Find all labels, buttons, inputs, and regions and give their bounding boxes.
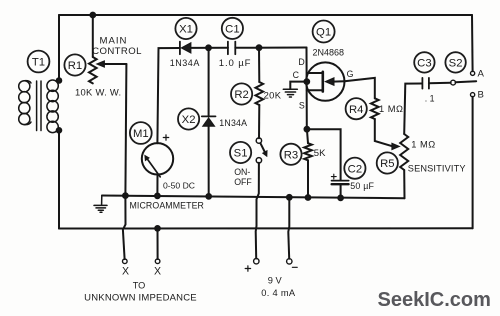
microammeter M1 body <box>142 143 173 174</box>
svg-text:SeekIC.com: SeekIC.com <box>378 289 491 311</box>
svg-text:R2: R2 <box>234 89 248 101</box>
wire left vertical lower <box>58 130 60 228</box>
wire top border <box>59 14 472 16</box>
junction R1 top <box>90 13 95 18</box>
terminal battery minus circle <box>287 259 292 264</box>
terminal A circle <box>471 71 475 75</box>
svg-text:9 V: 9 V <box>268 275 283 285</box>
svg-text:UNKNOWN IMPEDANCE: UNKNOWN IMPEDANCE <box>84 292 197 303</box>
wire source node to C2 <box>307 129 341 180</box>
junction R3 at ground rail <box>306 195 311 200</box>
junction X2 at ground rail <box>206 194 211 199</box>
wire drain corner / D-S vertical <box>306 48 308 130</box>
wire R2 top lead <box>258 48 260 82</box>
terminal B circle <box>471 93 475 97</box>
wire gate lead <box>333 80 345 82</box>
wire meter branch top corner <box>157 48 180 143</box>
svg-text:MICROAMMETER: MICROAMMETER <box>130 201 205 211</box>
resistor R2 20K <box>256 82 264 105</box>
svg-text:1.0 µF: 1.0 µF <box>219 58 252 69</box>
ground symbol case <box>283 89 297 97</box>
svg-text:1N34A: 1N34A <box>170 58 200 68</box>
junction C2 at ground rail <box>338 196 343 201</box>
transistor Q1 channel bar <box>321 72 324 92</box>
designator circle C1 <box>222 18 243 39</box>
junction secondary bottom <box>57 128 62 133</box>
switch S1 upper contact <box>256 138 261 143</box>
svg-text:1 MΩ: 1 MΩ <box>379 104 403 114</box>
svg-text:2N4868: 2N4868 <box>313 48 345 58</box>
resistor R5 1M sensitivity <box>400 134 408 170</box>
potentiometer R1 wiper arrow <box>97 61 105 67</box>
transformer T1 core <box>37 81 41 131</box>
svg-text:C3: C3 <box>417 58 431 70</box>
junction X terminal 2 at bottom rail <box>155 226 160 231</box>
svg-text:50 µF: 50 µF <box>350 181 374 191</box>
svg-text:G: G <box>347 69 354 79</box>
wire X2 branch vertical <box>208 48 210 117</box>
svg-text:20K: 20K <box>264 89 282 100</box>
transistor Q1 gate arrow <box>325 78 334 86</box>
svg-text:C: C <box>293 70 300 80</box>
wire R5 bottom lead <box>403 170 405 198</box>
wire C2 bottom lead <box>340 184 342 198</box>
wire R2 to S1 <box>258 105 260 138</box>
switch S1 lower contact <box>256 158 261 163</box>
battery minus sign <box>292 266 297 268</box>
svg-text:T1: T1 <box>32 57 45 69</box>
transformer T1 secondary winding <box>47 80 58 133</box>
wire meter bottom lead <box>156 175 158 196</box>
wire R1 wiper horizontal <box>104 63 126 65</box>
svg-text:. 1: . 1 <box>425 94 435 104</box>
svg-text:A: A <box>478 69 485 80</box>
wire X2 lower lead <box>208 126 210 196</box>
wire battery minus lead (hops bottom rail) <box>288 197 289 258</box>
resistor R1 10K W.W. <box>89 57 97 83</box>
capacitor C3 0.1uF plates <box>422 78 429 89</box>
terminal X1 circle <box>123 259 128 264</box>
meter needle <box>147 158 161 177</box>
designator circle C2 <box>344 158 365 179</box>
ground symbol left <box>94 196 107 213</box>
potentiometer R5 wiper arrow <box>392 143 400 149</box>
svg-text:R3: R3 <box>284 149 298 161</box>
junction meter at ground rail <box>155 194 160 199</box>
wire R3 bottom lead <box>307 160 309 197</box>
capacitor C2 50uF plates <box>332 181 349 185</box>
diode X1 1N34A cathode bar <box>179 42 181 55</box>
svg-text:ON-: ON- <box>234 167 250 177</box>
svg-text:R1: R1 <box>68 60 82 72</box>
wire lead to X terminal 1 (hops bottom rail) <box>123 196 126 260</box>
wire C3 to S2 pole <box>429 82 451 85</box>
terminal battery plus circle <box>254 259 259 264</box>
wire C3/R5 top corner <box>404 84 422 135</box>
svg-text:Q1: Q1 <box>316 27 331 39</box>
junction secondary top <box>57 78 62 83</box>
svg-text:B: B <box>478 90 484 101</box>
wire case to ground <box>290 82 307 89</box>
wire bottom rail <box>59 227 473 229</box>
designator circle R4 <box>346 98 367 119</box>
wire right vertical upper (to terminal A) <box>471 15 474 71</box>
svg-text:0-50 DC: 0-50 DC <box>163 180 195 190</box>
junction X2 branch <box>206 45 211 50</box>
wire ground rail <box>102 196 405 199</box>
switch S1 blade <box>260 143 264 152</box>
svg-text:10K W. W.: 10K W. W. <box>75 87 121 98</box>
wire S1 to battery plus (hops both rails) <box>256 163 259 259</box>
designator circle S1 <box>230 142 251 163</box>
junction source node <box>305 127 310 132</box>
transistor Q1 inner drain bar <box>307 72 323 74</box>
designator circle X1 <box>175 18 196 39</box>
meter plus polarity mark <box>163 135 168 140</box>
svg-text:R5: R5 <box>380 158 394 170</box>
svg-text:M1: M1 <box>133 128 149 140</box>
terminal X2 circle <box>155 259 160 264</box>
diode X2 triangle <box>203 118 215 126</box>
transformer T1 primary winding <box>19 81 31 125</box>
resistor R3 5K <box>304 143 312 160</box>
capacitor C2 plus mark <box>331 174 336 179</box>
transistor Q1 inner source bar <box>307 89 323 91</box>
switch S2 blade <box>456 81 477 82</box>
designator circle M1 <box>130 122 152 144</box>
resistor R4 1M <box>371 98 379 119</box>
diode X2 1N34A cathode bar <box>202 115 216 117</box>
designator circle C3 <box>414 52 434 72</box>
svg-text:5K: 5K <box>314 148 326 159</box>
svg-text:R4: R4 <box>349 104 363 116</box>
switch S2 pole contact <box>451 80 456 85</box>
designator circle T1 <box>28 51 50 73</box>
svg-text:X2: X2 <box>182 114 196 126</box>
wire lead to X terminal 2 <box>157 228 159 259</box>
junction wiper at ground rail <box>123 193 128 198</box>
junction case connection <box>304 79 309 84</box>
battery plus sign <box>245 266 250 271</box>
svg-text:1 MΩ: 1 MΩ <box>411 140 435 150</box>
svg-text:1N34A: 1N34A <box>219 118 247 128</box>
designator circle R5 <box>377 152 398 173</box>
svg-text:S2: S2 <box>449 58 463 70</box>
wire left vertical upper <box>58 15 60 81</box>
wire R3 top lead <box>307 129 308 143</box>
svg-text:X: X <box>122 266 129 278</box>
svg-text:OFF: OFF <box>234 177 252 187</box>
svg-text:S1: S1 <box>234 148 248 160</box>
designator circle Q1 <box>313 21 335 43</box>
svg-text:X: X <box>154 266 161 278</box>
wire right vertical lower (terminal B to bottom rail) <box>472 97 474 229</box>
designator circle R3 <box>280 144 301 165</box>
capacitor C1 1.0uF plates <box>228 42 235 55</box>
svg-text:0. 4 mA: 0. 4 mA <box>261 288 296 298</box>
designator circle R1 <box>64 54 85 75</box>
junction battery minus at ground rail <box>287 195 292 200</box>
transistor Q1 2N4868 body <box>306 62 344 100</box>
svg-text:SENSITIVITY: SENSITIVITY <box>408 164 466 174</box>
svg-text:C1: C1 <box>225 24 239 36</box>
wire R1 top lead <box>92 15 94 57</box>
wire C1 to drain corner <box>235 47 306 49</box>
designator circle S2 <box>445 52 465 72</box>
wire gate to R4 <box>345 78 375 98</box>
svg-text:D: D <box>298 57 304 67</box>
wire R4 to R5 wiper <box>375 119 393 146</box>
svg-text:CONTROL: CONTROL <box>92 46 142 57</box>
svg-text:S: S <box>299 101 305 111</box>
wire R1 wiper drop to ground rail <box>125 64 126 196</box>
junction R2 branch <box>257 45 262 50</box>
svg-text:TO: TO <box>133 280 146 290</box>
designator circle X2 <box>178 108 199 129</box>
diode X1 triangle <box>181 43 191 53</box>
designator circle R2 <box>231 83 252 104</box>
wire X1 to C1 <box>191 47 228 49</box>
svg-text:X1: X1 <box>179 24 193 36</box>
svg-text:C2: C2 <box>348 163 362 175</box>
